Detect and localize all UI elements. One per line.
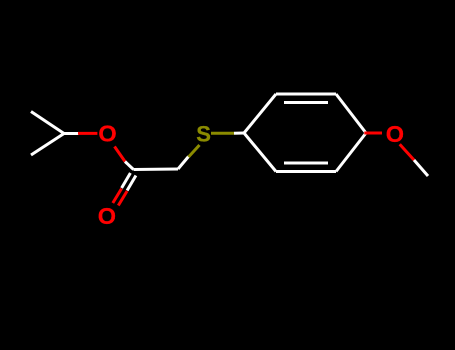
C=O double bond line2 red half: [118, 191, 127, 206]
aromatic inner line bottom: [284, 162, 328, 165]
benzene ring edge L-TL: [244, 94, 276, 133]
svg-text:O: O: [98, 203, 116, 229]
isopropyl methyl bond lower: [31, 134, 64, 156]
O1-C white half: [125, 162, 134, 170]
svg-text:O: O: [98, 121, 116, 147]
benzene ring edge BL-L: [244, 133, 276, 172]
benzene ring edge BR-BL: [276, 170, 336, 173]
ring-O3 bond red: [364, 132, 382, 135]
svg-text:O: O: [386, 121, 404, 147]
CH2-S bond yellow half: [189, 145, 200, 157]
S-ring bond white half: [234, 132, 244, 135]
O1-C red half: [115, 147, 126, 162]
benzene ring edge R-BR: [336, 133, 366, 172]
CH-O bond white half: [64, 132, 79, 135]
CH-O bond red half: [78, 132, 97, 135]
benzene ring edge TL-TR: [276, 93, 336, 96]
C=O double bond line2 white half: [127, 176, 136, 191]
benzene ring edge TR-R: [336, 94, 366, 133]
S-ring bond yellow half: [211, 132, 234, 135]
C=O double bond line1 red half: [113, 189, 122, 204]
svg-text:S: S: [196, 121, 211, 146]
C-CH2 bond: [134, 168, 179, 172]
C=O double bond line1 white half: [122, 173, 131, 188]
O3-CH3 bond red half: [400, 144, 414, 160]
aromatic inner line top: [284, 101, 328, 104]
isopropyl methyl bond upper: [31, 112, 64, 134]
O3-CH3 bond white half: [414, 160, 428, 176]
CH2-S bond white half: [178, 157, 189, 170]
